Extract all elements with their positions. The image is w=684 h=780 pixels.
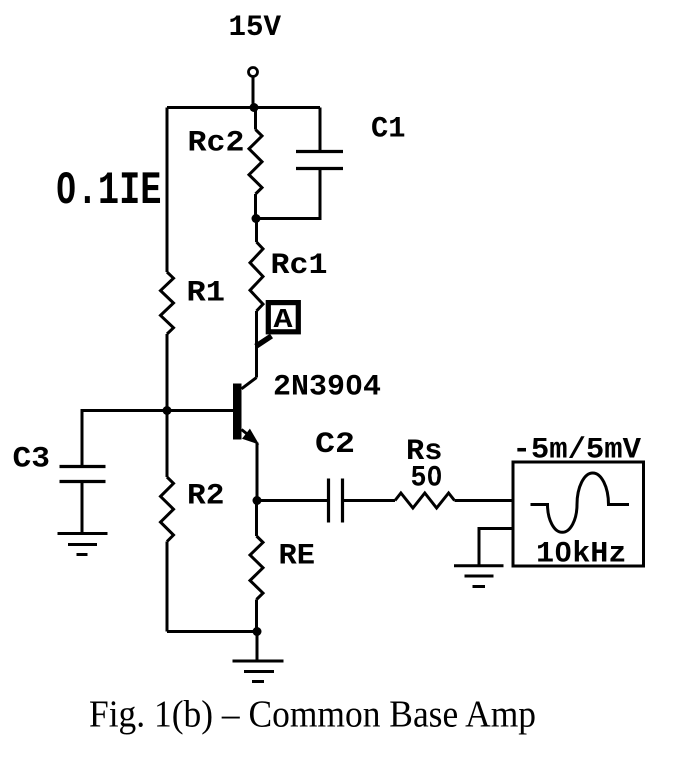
svg-text:10kHz: 10kHz <box>536 538 627 572</box>
resistor Rc1 <box>250 219 263 378</box>
ground source <box>454 566 504 587</box>
svg-text:R1: R1 <box>187 277 226 311</box>
svg-text:C3: C3 <box>13 443 51 477</box>
wire bottom rail <box>167 630 257 633</box>
svg-text:50: 50 <box>411 462 443 496</box>
source box <box>513 462 644 566</box>
svg-text:Fig. 1(b) – Common Base Amp: Fig. 1(b) – Common Base Amp <box>89 694 536 736</box>
node label box A <box>256 303 298 347</box>
wire base <box>167 409 233 412</box>
svg-text:-5m/5mV: -5m/5mV <box>513 434 642 468</box>
wire to center ground <box>256 632 259 662</box>
transistor Q1 2N3904 <box>233 378 259 501</box>
wire C2 to Rs <box>344 499 395 502</box>
svg-text:RE: RE <box>279 540 316 574</box>
wire left column top <box>166 108 169 273</box>
svg-text:0.1IE: 0.1IE <box>55 166 161 218</box>
svg-text:A: A <box>274 306 294 336</box>
wire terminal to top rail <box>252 77 255 108</box>
svg-text:C1: C1 <box>371 113 406 147</box>
wire base to C3 <box>82 411 167 466</box>
capacitor C3 <box>60 467 106 534</box>
svg-text:2N3904: 2N3904 <box>273 371 381 405</box>
node junction bottom <box>253 627 262 636</box>
node junction emitter <box>253 496 262 505</box>
resistor RE <box>250 501 263 632</box>
node junction top <box>250 103 259 112</box>
resistor R1 <box>161 272 174 411</box>
node junction below Rc2 <box>252 214 261 223</box>
svg-text:15V: 15V <box>229 11 282 45</box>
wire emitter to C2 <box>257 499 328 502</box>
zero glyph dot covers <box>63 184 566 554</box>
resistor R2 <box>161 477 174 632</box>
resistor Rc2 <box>249 108 262 219</box>
ground below C3 <box>58 534 108 555</box>
svg-text:Rc1: Rc1 <box>271 249 328 283</box>
wire Rs to source box <box>455 499 514 502</box>
power terminal 15V <box>249 68 258 77</box>
svg-text:Rc2: Rc2 <box>188 127 245 161</box>
resistor Rs <box>395 493 455 508</box>
capacitor C2 <box>329 479 343 523</box>
wire top rail <box>167 106 320 109</box>
capacitor C1 <box>256 108 343 219</box>
svg-text:R2: R2 <box>187 480 225 514</box>
wire left column lower <box>166 411 169 478</box>
node junction base <box>163 406 172 415</box>
sine wave <box>531 473 630 532</box>
wire source ground branch <box>479 529 513 566</box>
ground center <box>233 661 284 682</box>
svg-text:C2: C2 <box>315 428 355 462</box>
